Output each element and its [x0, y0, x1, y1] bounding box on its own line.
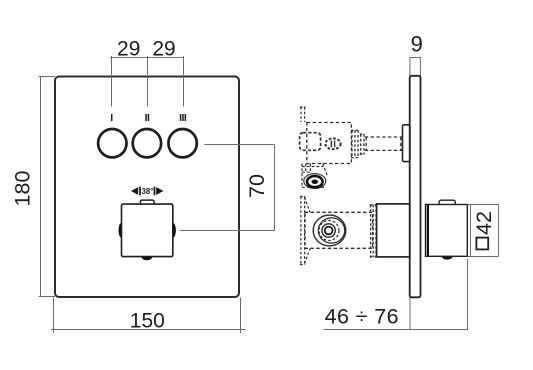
knob top tab	[140, 200, 154, 205]
extension 9 left	[409, 57, 411, 76]
button I	[98, 129, 126, 157]
wall plate side view	[410, 76, 421, 297]
inlet port outline	[304, 174, 326, 189]
svg-text:70: 70	[245, 174, 269, 198]
svg-text:150: 150	[130, 310, 165, 333]
knob right bump	[171, 223, 176, 237]
dim box 42 top	[467, 204, 498, 206]
front plate	[55, 77, 239, 298]
svg-text:III: III	[179, 112, 187, 124]
mixer flange strip	[300, 197, 310, 265]
extension line button I	[111, 56, 113, 107]
svg-text:29: 29	[117, 38, 140, 61]
mixer body	[305, 212, 373, 248]
inlet port ring	[307, 176, 323, 187]
extension 150 right	[240, 298, 242, 334]
dim line 29-29	[110, 57, 184, 59]
inlet port center	[312, 180, 319, 185]
dim line 46-76	[324, 329, 468, 331]
dim line 150	[51, 329, 246, 331]
dim box 42 bottom	[467, 256, 498, 258]
extension plate bottom	[409, 298, 411, 330]
leader button III	[204, 144, 274, 146]
mixer knurl ribs	[370, 205, 377, 257]
dim line 9	[410, 57, 421, 59]
leader knob	[180, 230, 275, 232]
mixer wall block	[377, 204, 410, 257]
dim box 42 right	[498, 205, 500, 257]
extension line button III	[183, 56, 185, 107]
diverter screw slot	[331, 141, 334, 148]
dim square symbol 42	[476, 238, 488, 250]
knob side body	[426, 205, 468, 257]
knob left bump	[119, 223, 124, 237]
diverter stem	[365, 137, 403, 150]
svg-text:29: 29	[152, 38, 175, 61]
svg-text:46 ÷ 76: 46 ÷ 76	[325, 305, 399, 329]
knob side base line	[427, 205, 429, 256]
diverter knurl ribs	[351, 130, 365, 157]
diverter top stub	[300, 107, 306, 122]
knob square	[122, 204, 173, 257]
diverter left cap	[300, 133, 321, 151]
extension bottom 180	[39, 296, 56, 298]
diverter body	[307, 123, 352, 164]
svg-text:I: I	[110, 112, 113, 124]
extension top 180	[39, 76, 56, 78]
knob side bottom tab	[442, 256, 453, 259]
extension 9 right	[419, 57, 421, 76]
extension line button II	[147, 56, 149, 107]
mixer second ellipse	[318, 218, 344, 243]
mixer center ring	[325, 227, 333, 235]
dim box 42 left	[470, 205, 472, 257]
svg-text:38°: 38°	[142, 187, 154, 196]
knob bottom bump	[141, 257, 152, 260]
svg-text:42: 42	[472, 211, 496, 235]
button III	[168, 129, 196, 157]
inlet port bracket	[302, 164, 327, 188]
extension knob bottom	[467, 259, 469, 330]
diverter screw ellipse	[325, 138, 340, 149]
button II	[133, 129, 161, 157]
svg-text:9: 9	[411, 32, 423, 57]
extension 150 left	[53, 298, 55, 334]
dim line 70	[274, 145, 276, 231]
mixer outer ellipse	[313, 215, 346, 246]
knob side top tab	[439, 200, 455, 205]
svg-text:II: II	[145, 112, 150, 124]
38 degree symbol	[131, 187, 163, 196]
mixer inner circle	[322, 224, 335, 237]
dim line 180 vertical	[40, 77, 42, 297]
diverter wall boss	[403, 125, 410, 162]
mixer dashed circle	[319, 221, 339, 241]
svg-text:180: 180	[11, 171, 35, 207]
